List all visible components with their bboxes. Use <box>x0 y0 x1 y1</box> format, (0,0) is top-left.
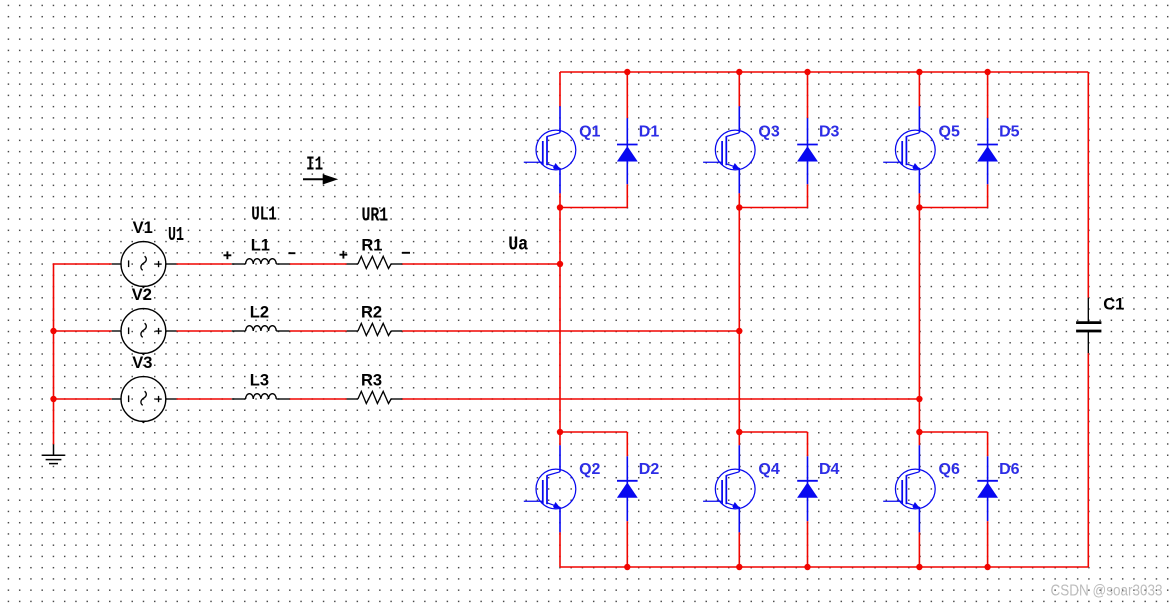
wire rail to Q5 collector <box>918 72 920 106</box>
wire join to Q4 collector <box>738 432 740 445</box>
junction bottom rail D4 <box>804 564 810 570</box>
junction bottom rail D2 <box>624 564 630 570</box>
wire Q2 emitter to rail <box>559 532 561 567</box>
wire left bus vertical <box>53 264 55 444</box>
svg-text:C1: C1 <box>1103 296 1124 314</box>
wire D1 body <box>626 118 628 184</box>
junction bus-V3 <box>50 396 56 402</box>
wire Q1 emitter down <box>559 193 561 207</box>
svg-text:R3: R3 <box>361 372 382 390</box>
current arrow I1 <box>303 174 338 184</box>
wire lower join Q4-D4 <box>739 431 807 433</box>
junction top rail D1 <box>624 69 630 75</box>
wire join to D6 cathode <box>987 432 989 456</box>
wire Q6 emitter to rail <box>918 532 920 567</box>
svg-text:CSDN @soar3033: CSDN @soar3033 <box>1051 583 1163 600</box>
svg-text:D6: D6 <box>999 461 1020 478</box>
svg-text:R2: R2 <box>361 304 382 322</box>
wire L2 to R2 <box>290 330 347 332</box>
junction top rail D3 <box>804 69 810 75</box>
svg-text:Q4: Q4 <box>758 461 779 478</box>
junction upper join 5 <box>916 204 922 210</box>
junction lower join 6 <box>916 429 922 435</box>
svg-text:V3: V3 <box>132 354 152 372</box>
svg-text:U1: U1 <box>168 224 184 246</box>
wire V3 to L3 <box>177 398 232 400</box>
svg-text:D5: D5 <box>999 123 1020 140</box>
svg-text:R1: R1 <box>361 237 382 255</box>
wire bottom rail <box>560 566 1088 568</box>
diode D1 <box>617 145 638 162</box>
svg-text:L1: L1 <box>251 237 270 255</box>
wire upper join Q1-D1 <box>560 207 627 209</box>
diode D2 <box>617 481 638 498</box>
wire phase B to bridge <box>402 330 739 332</box>
transistor Q2 <box>524 445 576 532</box>
transistor Q1 <box>524 106 576 193</box>
junction upper join 3 <box>736 204 742 210</box>
resistor R2 <box>347 323 403 335</box>
svg-text:Q1: Q1 <box>579 123 600 140</box>
source V2 <box>112 309 177 356</box>
junction top rail Q3 <box>736 69 742 75</box>
wire top rail <box>560 71 1088 73</box>
wire Q5 emitter down <box>918 193 920 207</box>
junction bottom rail Q6 <box>916 564 922 570</box>
wire Q4 emitter to rail <box>738 532 740 567</box>
svg-text:Q3: Q3 <box>758 123 779 140</box>
wire rail to C1 top <box>1087 72 1089 298</box>
inductor L1 <box>232 259 290 264</box>
diode D6 <box>977 481 998 498</box>
svg-text:V2: V2 <box>132 286 152 304</box>
svg-text:Q2: Q2 <box>579 461 600 478</box>
source V1 <box>112 242 177 289</box>
wire D6 body <box>987 456 989 521</box>
wire V1 to L1 <box>177 263 232 265</box>
wire join to Q2 collector <box>559 432 561 445</box>
wire rail to Q3 collector <box>738 72 740 106</box>
svg-text:UL1: UL1 <box>251 204 277 226</box>
transistor Q6 <box>883 445 935 532</box>
capacitor C1 <box>1076 298 1101 354</box>
wire phase C to bridge <box>402 398 919 400</box>
svg-text:Ua: Ua <box>508 234 528 256</box>
wire join to Q6 collector <box>918 432 920 445</box>
wire D1 anode down <box>626 184 628 207</box>
wire V2 to L2 <box>177 330 232 332</box>
resistor R3 <box>347 391 403 403</box>
wire D2 anode to rail <box>626 521 628 567</box>
plus mark L1 left <box>224 251 232 259</box>
junction phase A node <box>557 261 563 267</box>
diode D3 <box>797 145 818 162</box>
wire D4 body <box>807 456 809 521</box>
wire rail to D3 cathode <box>807 72 809 118</box>
wire join to D4 cathode <box>807 432 809 456</box>
svg-text:D1: D1 <box>639 123 660 140</box>
wire D4 anode to rail <box>807 521 809 567</box>
junction upper join 1 <box>557 204 563 210</box>
wire bus to V2 <box>53 330 112 332</box>
wire L1 to R1 <box>290 263 347 265</box>
junction lower join 4 <box>736 429 742 435</box>
wire D6 anode to rail <box>987 521 989 567</box>
svg-text:V1: V1 <box>133 219 153 237</box>
diode D5 <box>977 145 998 162</box>
transistor Q3 <box>703 106 755 193</box>
wire D2 body <box>626 456 628 521</box>
junction bus-V2 <box>50 328 56 334</box>
wire D5 body <box>987 118 989 184</box>
wire C1 bottom to rail <box>1087 353 1089 567</box>
diode D4 <box>797 481 818 498</box>
wire mid column 5 <box>918 208 920 433</box>
resistor R1 <box>347 256 403 268</box>
junction phase C node <box>916 396 922 402</box>
wire lower join Q6-D6 <box>919 431 987 433</box>
inductor L3 <box>232 394 290 399</box>
junction lower join 2 <box>557 429 563 435</box>
svg-text:I1: I1 <box>306 154 323 176</box>
wire phase A to bridge <box>402 263 560 265</box>
wire rail to Q1 collector <box>559 72 561 106</box>
junction top rail Q5 <box>916 69 922 75</box>
wire D3 body <box>807 118 809 184</box>
wire L3 to R3 <box>290 398 347 400</box>
inductor L2 <box>232 326 290 331</box>
svg-text:UR1: UR1 <box>362 204 389 226</box>
wire Q3 emitter down <box>738 193 740 207</box>
source V3 <box>112 377 177 424</box>
minus mark R1 right <box>402 252 410 254</box>
wire rail to D1 cathode <box>626 72 628 118</box>
wire lower join Q2-D2 <box>560 431 627 433</box>
wire D3 anode down <box>807 184 809 207</box>
wire mid column 3 <box>738 208 740 433</box>
wire join to D2 cathode <box>626 432 628 456</box>
svg-text:Q5: Q5 <box>939 123 960 140</box>
svg-text:D2: D2 <box>639 461 660 478</box>
wire upper join Q5-D5 <box>919 207 987 209</box>
wire D5 anode down <box>987 184 989 207</box>
wire upper join Q3-D3 <box>739 207 807 209</box>
transistor Q4 <box>703 445 755 532</box>
wire bus to V3 <box>53 398 112 400</box>
plus mark R1 left <box>340 251 348 259</box>
svg-text:D4: D4 <box>819 461 840 478</box>
junction bottom rail Q4 <box>736 564 742 570</box>
wire bus to V1 <box>53 263 112 265</box>
junction top rail D5 <box>984 69 990 75</box>
wire rail to D5 cathode <box>987 72 989 118</box>
svg-text:L3: L3 <box>250 372 269 390</box>
ground <box>42 444 65 463</box>
transistor Q5 <box>883 106 935 193</box>
minus mark L1 right <box>288 252 295 254</box>
junction phase B node <box>736 328 742 334</box>
svg-text:D3: D3 <box>819 123 840 140</box>
svg-text:Q6: Q6 <box>939 461 960 478</box>
junction bottom rail D6 <box>984 564 990 570</box>
wire mid column 1 <box>559 208 561 433</box>
svg-text:L2: L2 <box>250 304 269 322</box>
